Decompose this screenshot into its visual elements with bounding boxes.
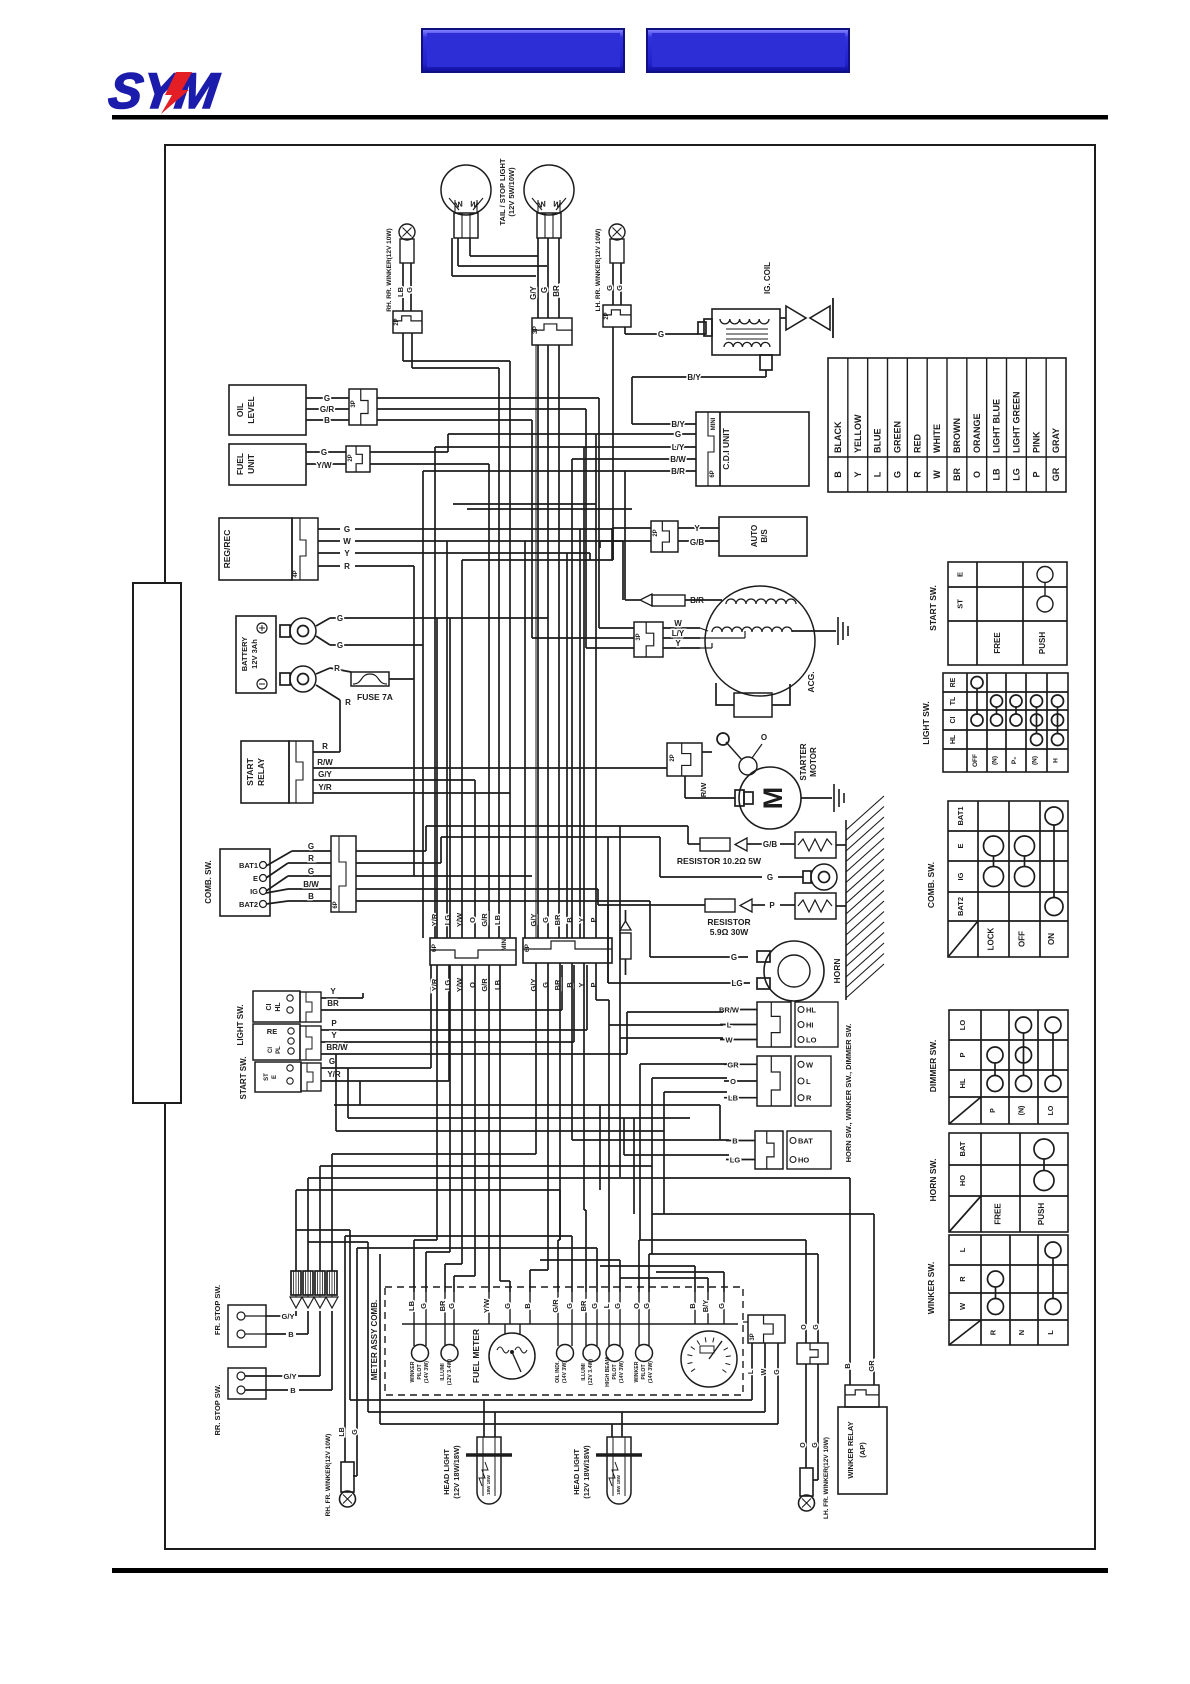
svg-text:G: G	[658, 330, 664, 339]
svg-text:HORN SW., WINKER SW., DIMMER S: HORN SW., WINKER SW., DIMMER SW.	[844, 1024, 853, 1163]
svg-text:G/Y: G/Y	[284, 1372, 297, 1381]
svg-text:R: R	[334, 664, 340, 673]
svg-text:LIGHT SW.: LIGHT SW.	[236, 1005, 245, 1046]
svg-text:LO: LO	[806, 1036, 817, 1045]
svg-text:P: P	[958, 1052, 967, 1057]
svg-text:G: G	[447, 1303, 456, 1309]
svg-text:G/R: G/R	[320, 405, 334, 414]
svg-text:G/B: G/B	[763, 840, 777, 849]
svg-text:METER ASSY COMB.: METER ASSY COMB.	[370, 1300, 379, 1380]
svg-text:E: E	[956, 843, 965, 848]
svg-text:G: G	[605, 285, 614, 291]
svg-text:FR. STOP SW.: FR. STOP SW.	[213, 1285, 222, 1335]
svg-text:L: L	[958, 1247, 967, 1252]
svg-text:G: G	[812, 1442, 819, 1448]
svg-text:FUEL: FUEL	[235, 453, 245, 475]
svg-text:H: H	[1053, 758, 1060, 763]
svg-text:E: E	[253, 874, 258, 883]
svg-text:BROWN: BROWN	[952, 418, 962, 453]
svg-text:LIGHT BLUE: LIGHT BLUE	[992, 399, 1002, 453]
svg-text:OFF: OFF	[972, 754, 979, 767]
svg-text:P: P	[331, 1019, 337, 1028]
svg-text:B: B	[688, 1303, 697, 1309]
svg-text:G: G	[337, 614, 343, 623]
svg-text:M: M	[758, 787, 788, 810]
svg-text:2P: 2P	[653, 529, 659, 536]
svg-text:G/Y: G/Y	[318, 770, 332, 779]
svg-text:18W 18W: 18W 18W	[616, 1474, 621, 1495]
svg-text:START SW.: START SW.	[239, 1057, 248, 1100]
svg-text:G: G	[675, 430, 681, 439]
svg-text:LB: LB	[992, 468, 1002, 480]
svg-text:RR. STOP SW.: RR. STOP SW.	[213, 1385, 222, 1436]
svg-text:(12V 3.4W): (12V 3.4W)	[447, 1359, 453, 1386]
svg-text:FREE: FREE	[994, 1203, 1003, 1225]
svg-text:G/Y: G/Y	[282, 1312, 295, 1321]
svg-text:L: L	[748, 1369, 755, 1374]
svg-text:LB: LB	[339, 1427, 346, 1436]
svg-text:LH. FR. WINKER(12V 10W): LH. FR. WINKER(12V 10W)	[823, 1437, 830, 1519]
svg-text:RH. FR. WINKER(12V 10W): RH. FR. WINKER(12V 10W)	[325, 1434, 332, 1517]
svg-text:WINKER RELAY: WINKER RELAY	[846, 1421, 855, 1478]
svg-text:BLACK: BLACK	[833, 421, 843, 453]
svg-text:HORN: HORN	[832, 958, 842, 983]
svg-text:G: G	[405, 287, 414, 293]
svg-text:Y/W: Y/W	[482, 1298, 491, 1313]
svg-text:RE: RE	[950, 677, 957, 687]
svg-text:BAT: BAT	[958, 1141, 967, 1156]
svg-text:G: G	[892, 471, 902, 478]
svg-text:(N): (N)	[992, 756, 999, 765]
svg-text:5.9Ω 30W: 5.9Ω 30W	[710, 927, 749, 937]
svg-text:YELLOW: YELLOW	[853, 414, 863, 453]
svg-text:BAT1: BAT1	[956, 806, 965, 825]
svg-text:WHITE: WHITE	[932, 424, 942, 453]
svg-text:G: G	[615, 285, 624, 291]
svg-text:RELAY: RELAY	[256, 758, 266, 786]
svg-text:(N): (N)	[1032, 756, 1039, 765]
svg-text:(14V 3W): (14V 3W)	[562, 1361, 568, 1383]
svg-text:GRAY: GRAY	[1051, 428, 1061, 453]
svg-text:G/Y: G/Y	[529, 285, 538, 299]
svg-text:(12V 18W/18W): (12V 18W/18W)	[582, 1445, 591, 1499]
svg-text:BR: BR	[552, 285, 561, 297]
svg-text:Y/W: Y/W	[316, 461, 332, 470]
svg-text:B: B	[732, 1137, 738, 1146]
svg-text:HO: HO	[798, 1156, 809, 1165]
svg-text:ILLUMI: ILLUMI	[440, 1363, 446, 1381]
svg-text:B: B	[324, 416, 330, 425]
svg-text:O: O	[801, 1324, 808, 1330]
svg-text:L: L	[602, 1303, 611, 1308]
svg-text:18W 18W: 18W 18W	[486, 1474, 491, 1495]
svg-text:B: B	[290, 1386, 296, 1395]
svg-text:AUTO: AUTO	[750, 525, 759, 548]
svg-text:RH. RR. WINKER(12V 10W): RH. RR. WINKER(12V 10W)	[386, 228, 393, 311]
svg-text:G/B: G/B	[690, 538, 704, 547]
svg-text:R: R	[308, 854, 314, 863]
svg-text:L/Y: L/Y	[672, 443, 685, 452]
svg-text:B/W: B/W	[670, 455, 686, 464]
svg-text:G: G	[565, 1303, 574, 1309]
svg-text:STARTER: STARTER	[799, 743, 808, 780]
svg-text:W: W	[343, 537, 351, 546]
svg-text:W: W	[761, 1368, 768, 1375]
svg-text:GREEN: GREEN	[892, 421, 902, 453]
svg-text:PINK: PINK	[1031, 431, 1041, 453]
svg-text:RED: RED	[912, 433, 922, 453]
svg-text:LG: LG	[1011, 468, 1021, 481]
svg-text:CI: CI	[950, 716, 957, 723]
svg-text:W: W	[958, 1302, 967, 1310]
svg-text:L: L	[873, 471, 883, 477]
svg-text:3P: 3P	[351, 400, 357, 407]
svg-text:LB: LB	[728, 1094, 739, 1103]
svg-text:GR: GR	[727, 1060, 739, 1069]
svg-text:FUSE 7A: FUSE 7A	[357, 692, 393, 702]
svg-text:CI: CI	[268, 1047, 274, 1053]
svg-text:6P: 6P	[431, 943, 438, 952]
svg-text:B/Y: B/Y	[687, 373, 701, 382]
svg-text:R: R	[912, 471, 922, 478]
svg-text:G: G	[717, 1303, 726, 1309]
svg-text:(AP): (AP)	[858, 1442, 867, 1458]
svg-text:O: O	[972, 471, 982, 478]
svg-text:(14V 3W): (14V 3W)	[424, 1361, 430, 1383]
svg-text:C.D.I UNIT: C.D.I UNIT	[721, 427, 731, 469]
svg-text:B: B	[833, 471, 843, 478]
svg-text:BR/W: BR/W	[719, 1006, 740, 1015]
svg-text:MOTOR: MOTOR	[809, 747, 818, 777]
svg-text:MINI: MINI	[711, 417, 717, 430]
svg-text:N: N	[1017, 1330, 1026, 1335]
svg-text:L: L	[727, 1021, 732, 1030]
svg-text:TAIL / STOP LIGHT: TAIL / STOP LIGHT	[498, 158, 507, 225]
svg-text:G/R: G/R	[480, 913, 489, 927]
svg-text:Y: Y	[675, 639, 681, 648]
svg-text:BLUE: BLUE	[873, 429, 883, 454]
svg-text:HO: HO	[958, 1175, 967, 1186]
svg-text:G/R: G/R	[480, 978, 489, 992]
svg-text:B/W: B/W	[303, 880, 319, 889]
svg-text:3P: 3P	[532, 325, 539, 334]
svg-text:HEAD LIGHT: HEAD LIGHT	[572, 1449, 581, 1495]
svg-text:2P: 2P	[604, 312, 610, 319]
svg-text:W: W	[932, 470, 942, 479]
svg-text:BR: BR	[438, 1300, 447, 1311]
svg-text:IG. COIL: IG. COIL	[763, 262, 772, 294]
svg-text:Y: Y	[331, 1031, 337, 1040]
svg-text:P: P	[1031, 471, 1041, 477]
svg-text:HL: HL	[806, 1006, 816, 1015]
svg-text:G: G	[613, 1303, 622, 1309]
svg-text:PILOT: PILOT	[641, 1364, 647, 1380]
svg-text:WINKER: WINKER	[634, 1361, 640, 1382]
svg-text:ON: ON	[1047, 933, 1056, 945]
svg-text:G: G	[352, 1429, 359, 1435]
svg-text:(12V 3.4W): (12V 3.4W)	[588, 1359, 594, 1386]
svg-text:W: W	[674, 619, 682, 628]
svg-text:LEVEL: LEVEL	[246, 396, 256, 423]
svg-text:WINKER SW.: WINKER SW.	[926, 1262, 936, 1314]
svg-text:RESISTOR 10.2Ω 5W: RESISTOR 10.2Ω 5W	[677, 856, 762, 866]
svg-text:BR: BR	[553, 914, 562, 925]
svg-text:G: G	[503, 1303, 512, 1309]
svg-text:LIGHT GREEN: LIGHT GREEN	[1011, 391, 1021, 453]
svg-text:E: E	[272, 1075, 278, 1079]
svg-text:LB: LB	[407, 1300, 416, 1311]
svg-text:G: G	[540, 287, 549, 293]
svg-text:BR: BR	[327, 999, 339, 1008]
svg-text:GR: GR	[1051, 467, 1061, 481]
svg-text:B/S: B/S	[760, 529, 769, 543]
svg-text:2P: 2P	[348, 454, 354, 461]
svg-text:BR/W: BR/W	[326, 1043, 348, 1052]
svg-text:ILLUMI: ILLUMI	[581, 1363, 587, 1381]
svg-text:P: P	[769, 901, 775, 910]
svg-text:BATTERY: BATTERY	[240, 637, 249, 672]
svg-text:DIMMER SW.: DIMMER SW.	[928, 1040, 938, 1092]
svg-text:LH. RR. WINKER(12V 10W): LH. RR. WINKER(12V 10W)	[595, 229, 602, 312]
svg-text:HL: HL	[950, 734, 957, 744]
svg-text:LG: LG	[731, 979, 742, 988]
svg-text:6P: 6P	[333, 901, 339, 908]
svg-text:R: R	[345, 698, 351, 707]
svg-text:(12V 5W/10W): (12V 5W/10W)	[507, 167, 516, 217]
svg-text:G/Y: G/Y	[529, 914, 538, 927]
svg-text:UNIT: UNIT	[246, 453, 256, 474]
svg-text:R: R	[344, 562, 350, 571]
svg-text:R: R	[322, 742, 328, 751]
svg-text:ST: ST	[264, 1073, 270, 1081]
svg-text:4P: 4P	[293, 570, 299, 577]
svg-text:Y/R: Y/R	[327, 1070, 341, 1079]
svg-text:G: G	[321, 448, 327, 457]
svg-text:WINKER: WINKER	[410, 1361, 416, 1382]
svg-text:B/R: B/R	[671, 467, 685, 476]
svg-text:COMB. SW.: COMB. SW.	[204, 860, 213, 904]
svg-text:BAT2: BAT2	[239, 900, 258, 909]
svg-text:LB: LB	[396, 286, 405, 297]
svg-text:HL: HL	[958, 1078, 967, 1088]
svg-text:R/W: R/W	[317, 758, 333, 767]
svg-text:2P: 2P	[394, 318, 400, 325]
svg-text:O: O	[468, 917, 477, 923]
svg-text:BAT1: BAT1	[239, 861, 258, 870]
svg-text:PL: PL	[276, 1046, 282, 1054]
svg-text:Y: Y	[853, 471, 863, 477]
svg-text:LIGHT SW.: LIGHT SW.	[921, 701, 931, 744]
svg-text:G: G	[329, 1057, 335, 1066]
svg-text:RESISTOR: RESISTOR	[707, 917, 750, 927]
svg-text:START: START	[245, 757, 255, 786]
svg-text:OIL: OIL	[235, 403, 245, 417]
svg-text:L/Y: L/Y	[672, 629, 685, 638]
svg-text:G: G	[308, 867, 314, 876]
svg-text:BAT2: BAT2	[956, 897, 965, 916]
svg-text:LB: LB	[493, 914, 502, 925]
svg-text:G: G	[324, 394, 330, 403]
svg-text:L: L	[1046, 1330, 1055, 1335]
svg-text:COMB. SW.: COMB. SW.	[926, 862, 936, 908]
svg-text:TL: TL	[950, 696, 957, 705]
svg-text:PILOT: PILOT	[417, 1364, 423, 1380]
svg-text:ORANGE: ORANGE	[972, 413, 982, 453]
svg-text:B: B	[843, 1363, 852, 1369]
svg-text:G: G	[813, 1324, 820, 1330]
svg-text:ACG.: ACG.	[806, 671, 816, 692]
svg-text:G: G	[731, 953, 737, 962]
svg-text:3P: 3P	[636, 633, 642, 640]
svg-text:B/Y: B/Y	[671, 420, 685, 429]
svg-text:START SW.: START SW.	[928, 585, 938, 631]
svg-text:O: O	[632, 1303, 641, 1309]
svg-text:CI: CI	[266, 1003, 273, 1010]
svg-text:R: R	[989, 1329, 998, 1335]
svg-text:G/R: G/R	[551, 1299, 560, 1313]
svg-text:G: G	[767, 873, 773, 882]
svg-text:Y/R: Y/R	[318, 783, 332, 792]
svg-text:PUSH: PUSH	[1037, 1203, 1046, 1225]
svg-text:O: O	[800, 1442, 807, 1448]
svg-text:Y: Y	[694, 524, 700, 533]
svg-text:6P: 6P	[710, 470, 716, 477]
svg-text:HL: HL	[275, 1002, 282, 1012]
svg-text:REG/REC: REG/REC	[222, 530, 232, 569]
svg-text:BR: BR	[579, 1300, 588, 1311]
svg-text:LOCK: LOCK	[987, 927, 996, 950]
svg-text:LG: LG	[730, 1156, 741, 1165]
svg-text:6P: 6P	[524, 943, 531, 952]
svg-text:(14V 3W): (14V 3W)	[619, 1361, 625, 1383]
svg-text:G: G	[344, 525, 350, 534]
svg-text:G: G	[774, 1369, 781, 1375]
svg-text:RE: RE	[267, 1027, 277, 1036]
svg-text:HI: HI	[806, 1021, 814, 1030]
svg-text:HIGH BEAM: HIGH BEAM	[605, 1357, 611, 1387]
svg-text:O: O	[730, 1077, 736, 1086]
svg-text:G: G	[337, 641, 343, 650]
svg-text:Y: Y	[344, 549, 350, 558]
svg-text:(N): (N)	[1019, 1106, 1026, 1116]
svg-text:W: W	[806, 1060, 814, 1069]
svg-text:PUSH: PUSH	[1038, 632, 1047, 654]
svg-text:G: G	[590, 1303, 599, 1309]
svg-text:LO: LO	[958, 1020, 967, 1031]
svg-text:OIL INDI.: OIL INDI.	[555, 1361, 561, 1383]
svg-text:OFF: OFF	[1018, 931, 1027, 947]
svg-text:B: B	[288, 1330, 294, 1339]
svg-text:HORN SW.: HORN SW.	[928, 1159, 938, 1202]
svg-text:GR: GR	[867, 1360, 876, 1372]
svg-text:B/Y: B/Y	[701, 1300, 710, 1313]
svg-text:R: R	[806, 1094, 812, 1103]
svg-text:R/W: R/W	[699, 782, 708, 798]
svg-text:BAT: BAT	[798, 1137, 813, 1146]
svg-text:MINI: MINI	[501, 937, 508, 951]
svg-text:IG: IG	[250, 887, 258, 896]
svg-text:Y: Y	[330, 987, 336, 996]
svg-text:ST: ST	[956, 599, 965, 609]
svg-text:PILOT: PILOT	[612, 1364, 618, 1380]
svg-text:G: G	[642, 1303, 651, 1309]
svg-text:E: E	[956, 572, 965, 577]
svg-text:G: G	[541, 917, 550, 923]
svg-text:BR: BR	[952, 468, 962, 481]
svg-text:LO: LO	[1048, 1105, 1055, 1115]
svg-text:(14V 3W): (14V 3W)	[648, 1361, 654, 1383]
svg-text:FUEL METER: FUEL METER	[471, 1329, 481, 1383]
svg-text:IG: IG	[956, 872, 965, 880]
svg-text:B: B	[523, 1303, 532, 1309]
svg-text:G: G	[308, 842, 314, 851]
svg-text:2P: 2P	[670, 754, 676, 761]
svg-text:L: L	[806, 1077, 811, 1086]
svg-text:FREE: FREE	[993, 632, 1002, 654]
svg-text:12V 3Ah: 12V 3Ah	[250, 639, 259, 669]
svg-text:B: B	[308, 892, 314, 901]
svg-text:G: G	[419, 1303, 428, 1309]
svg-text:P: P	[990, 1108, 997, 1113]
svg-text:R: R	[958, 1276, 967, 1282]
svg-text:3P: 3P	[750, 1333, 756, 1340]
svg-text:W: W	[725, 1036, 733, 1045]
svg-text:P₀: P₀	[1011, 757, 1018, 764]
svg-text:(12V 18W/18W): (12V 18W/18W)	[452, 1445, 461, 1499]
svg-text:HEAD LIGHT: HEAD LIGHT	[442, 1449, 451, 1495]
svg-text:O: O	[761, 733, 767, 742]
